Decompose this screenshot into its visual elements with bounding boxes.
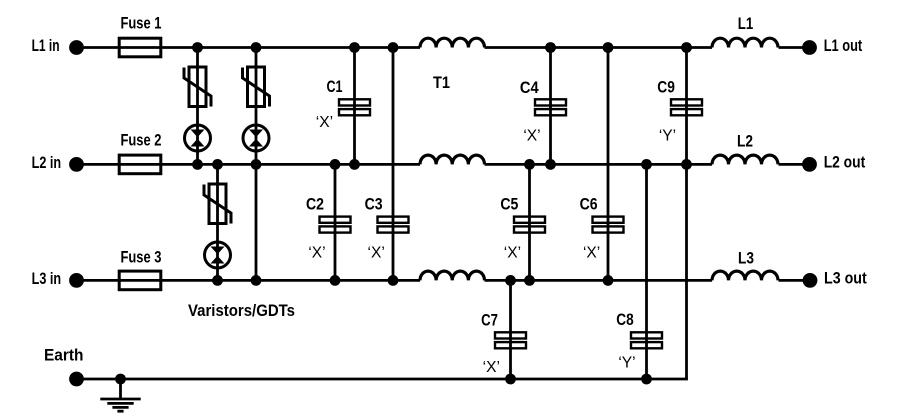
svg-text:C2: C2: [306, 196, 324, 214]
node junction on L2 at x=646.5: [641, 159, 652, 170]
svg-text:C5: C5: [500, 196, 518, 214]
svg-text:L1 in: L1 in: [32, 37, 60, 55]
svg-text:L2: L2: [737, 133, 753, 151]
node junction on L3 at x=217.5: [212, 275, 223, 286]
capacitor C4 (X, L1-L2): [535, 99, 566, 115]
node junction on earth line at x=120.5: [115, 374, 126, 385]
capacitor C3 (X, L1-L3): [378, 217, 409, 233]
node junction on L3 at x=608: [603, 275, 614, 286]
wire varistor branch L1-L2 at x=197.5: [196, 48, 199, 165]
wire C8 branch L2 to earth: [645, 164, 648, 379]
svg-text:L1 out: L1 out: [824, 37, 863, 55]
transformer T1 winding a (L1 line): [420, 38, 485, 47]
node junction on L2 at x=550.5: [545, 159, 556, 170]
wire L1 line: input to T1 winding: [77, 46, 421, 49]
wire C9 branch L1 to earth: [685, 48, 688, 380]
node L2 in terminal: [69, 157, 84, 172]
fuse F3 body: [119, 271, 161, 290]
wire C3 branch L1-L3: [392, 48, 395, 281]
svg-text:Fuse 3: Fuse 3: [121, 249, 162, 267]
inductor L1: [712, 38, 778, 47]
svg-text:‘Y’: ‘Y’: [618, 355, 635, 372]
node junction on L3 at x=510.5: [505, 275, 516, 286]
node L1 in terminal: [69, 40, 84, 55]
wire L2 line: input to T1 winding: [77, 163, 421, 166]
capacitor C9 (Y, L1 branch): [671, 99, 702, 115]
wire varistor branch L2-L3 at x=217.5: [216, 164, 219, 280]
svg-text:L3 in: L3 in: [32, 270, 61, 288]
capacitor C2 (X, L2-L3): [320, 217, 351, 233]
svg-text:‘X’: ‘X’: [368, 245, 385, 262]
svg-text:C4: C4: [520, 79, 540, 97]
wire varistor branch L1-L2-L3 at x=256: [255, 48, 258, 281]
wire L1 line: T1 to output inductor: [485, 46, 713, 49]
node junction on L2 at x=335: [330, 159, 341, 170]
wire C7 branch L3 to earth: [509, 280, 512, 379]
wire C1 branch L1-L2: [353, 48, 356, 165]
svg-text:C9: C9: [657, 79, 675, 97]
wire C5 branch L2-L3: [528, 164, 531, 280]
node junction on L3 at x=335: [330, 275, 341, 286]
GDT gas discharge tube G1: [185, 125, 211, 151]
wire L2 line: T1 to output inductor: [485, 163, 713, 166]
wire L1 line: inductor to output terminal: [779, 46, 810, 49]
node junction on L2 at x=197.5: [192, 159, 203, 170]
node junction on L3 at x=256: [251, 275, 262, 286]
transformer T1 winding c (L3 line): [420, 271, 485, 280]
node L3 out terminal: [803, 273, 818, 288]
GDT gas discharge tube G2: [243, 125, 269, 151]
capacitor C6 (X, L1-L3): [593, 217, 624, 233]
wire C6 branch L1-L3: [607, 48, 610, 281]
node L1 out terminal: [802, 40, 817, 55]
svg-text:Varistors/GDTs: Varistors/GDTs: [188, 302, 295, 320]
svg-text:C3: C3: [365, 196, 383, 214]
node junction on L1 at x=608: [603, 42, 614, 53]
svg-text:L3 out: L3 out: [824, 270, 867, 288]
node junction on L2 at x=354.5: [349, 159, 360, 170]
node junction on earth line at x=646.5: [641, 374, 652, 385]
capacitor C5 (X, L2-L3): [514, 217, 545, 233]
inductor L2: [712, 155, 778, 164]
svg-text:C1: C1: [327, 78, 343, 96]
node junction on L1 at x=197.5: [192, 42, 203, 53]
node junction on L1 at x=256: [251, 42, 262, 53]
svg-text:Earth: Earth: [44, 346, 84, 364]
wire L3 line: inductor to output terminal: [779, 279, 810, 282]
node junction on L2 at x=217.5: [212, 159, 223, 170]
inductor L3: [712, 271, 778, 280]
node junction on L1 at x=686.5: [681, 42, 692, 53]
svg-text:Fuse 1: Fuse 1: [121, 14, 162, 32]
node junction on L1 at x=550.5: [545, 42, 556, 53]
svg-text:‘X’: ‘X’: [316, 114, 333, 131]
svg-text:Fuse 2: Fuse 2: [121, 132, 162, 150]
svg-text:L2 out: L2 out: [824, 154, 866, 172]
wire earth line with corner up to C9 branch: [77, 378, 687, 379]
node junction on earth line at x=510.5: [505, 374, 516, 385]
wire L2 line: inductor to output terminal: [779, 163, 810, 166]
node junction on L2 at x=529.5: [524, 159, 535, 170]
svg-text:‘X’: ‘X’: [308, 245, 325, 262]
node L2 out terminal: [802, 157, 817, 172]
node junction on L1 at x=393: [388, 42, 399, 53]
varistor RV2 (L1-L3 branch): [243, 67, 270, 107]
varistor RV1 (L1-L2 branch): [184, 67, 211, 107]
fuse F1 body: [119, 38, 161, 57]
varistor RV3 (L2-L3 branch): [204, 184, 231, 224]
svg-text:C6: C6: [580, 196, 598, 214]
svg-text:‘X’: ‘X’: [523, 128, 540, 145]
node junction on L2 at x=686.5: [681, 159, 692, 170]
svg-text:L3: L3: [738, 249, 754, 267]
transformer T1 winding b (L2 line): [420, 155, 485, 164]
wire C2 branch L2-L3: [334, 164, 337, 280]
node L3 in terminal: [69, 273, 84, 288]
svg-text:C7: C7: [481, 312, 498, 330]
wire C4 branch L1-L2: [549, 48, 552, 165]
GDT gas discharge tube G3: [205, 242, 231, 268]
capacitor C1 (X, L1-L2): [339, 99, 370, 115]
node Earth terminal: [69, 372, 84, 387]
svg-text:L2 in: L2 in: [32, 154, 61, 172]
fuse F2 body: [119, 155, 161, 174]
capacitor C8 (Y, L2-earth): [631, 332, 662, 348]
svg-text:L1: L1: [738, 15, 754, 33]
svg-text:C8: C8: [616, 311, 633, 329]
capacitor C7 (X, L3-earth): [495, 332, 526, 348]
wire L3 line: input to T1 winding: [77, 279, 421, 282]
svg-text:‘Y’: ‘Y’: [659, 128, 676, 145]
node junction on L3 at x=529.5: [524, 275, 535, 286]
node junction on L1 at x=354.5: [349, 42, 360, 53]
svg-text:‘X’: ‘X’: [583, 245, 600, 262]
svg-text:‘X’: ‘X’: [483, 359, 500, 376]
node junction on L2 at x=256: [251, 159, 262, 170]
wire L3 line: T1 to output inductor: [485, 279, 713, 282]
node junction on L3 at x=393: [388, 275, 399, 286]
svg-text:T1: T1: [433, 74, 450, 92]
svg-text:‘X’: ‘X’: [504, 245, 521, 262]
ground symbol (earth): [100, 379, 140, 411]
